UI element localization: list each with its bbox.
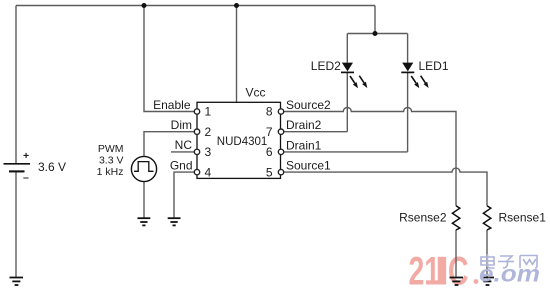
svg-text:1 kHz: 1 kHz: [97, 166, 124, 178]
svg-text:Rsense2: Rsense2: [399, 211, 447, 225]
svg-text:–: –: [23, 172, 29, 184]
svg-text:NUD4301: NUD4301: [217, 136, 267, 148]
svg-text:e.om: e.om: [479, 261, 540, 287]
svg-text:Vcc: Vcc: [246, 86, 266, 100]
svg-text:Source1: Source1: [286, 159, 331, 173]
svg-text:LED1: LED1: [419, 59, 449, 73]
svg-text:3: 3: [205, 145, 212, 159]
svg-text:4: 4: [205, 165, 212, 179]
svg-text:LED2: LED2: [311, 59, 341, 73]
svg-text:8: 8: [266, 105, 273, 119]
svg-text:PWM: PWM: [98, 143, 124, 155]
svg-text:+: +: [23, 150, 29, 162]
svg-text:2: 2: [205, 125, 212, 139]
svg-text:5: 5: [266, 165, 273, 179]
svg-text:NC: NC: [175, 138, 193, 152]
svg-text:Drain2: Drain2: [286, 118, 322, 132]
svg-text:3.3 V: 3.3 V: [99, 155, 124, 167]
svg-text:Enable: Enable: [153, 98, 191, 112]
svg-text:Gnd: Gnd: [170, 159, 193, 173]
svg-text:Source2: Source2: [286, 98, 331, 112]
svg-text:1: 1: [205, 105, 212, 119]
svg-text:Rsense1: Rsense1: [499, 211, 547, 225]
svg-text:Drain1: Drain1: [286, 138, 322, 152]
svg-text:3.6 V: 3.6 V: [38, 160, 66, 174]
svg-text:Dim: Dim: [171, 118, 192, 132]
